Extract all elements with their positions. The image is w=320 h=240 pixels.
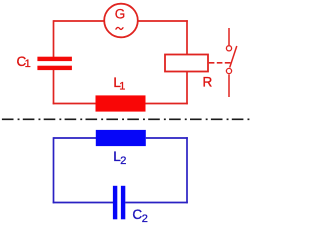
svg-text:2: 2 [142,213,148,225]
capacitor C2 left plate [113,186,117,220]
switch bottom contact circle [226,68,231,73]
wire bottom-left segment of primary loop [53,103,96,105]
switch top contact circle [226,46,231,51]
wire top-left segment of secondary loop [54,137,97,139]
wire left vertical lower (C1 to corner) [53,70,55,104]
dashed link R to switch [209,62,231,64]
switch blade [230,46,237,68]
wire top-right segment of secondary loop [146,137,188,139]
wire bottom-left segment of secondary loop [53,202,113,204]
svg-text:2: 2 [120,155,126,167]
svg-text:R: R [203,75,213,90]
wire right vertical lower (R to corner) [186,72,188,105]
svg-text:1: 1 [25,58,31,70]
capacitor C1 top plate [37,57,72,61]
wire left vertical of secondary loop [53,137,55,203]
wire left vertical upper (to C1) [53,20,55,57]
wire right vertical upper (to R) [186,20,188,54]
svg-text:1: 1 [119,81,125,93]
capacitor C2 right plate [121,186,125,220]
generator U1 circle [104,4,138,38]
svg-text:G: G [115,7,126,22]
wire top-right segment of primary loop [138,20,188,22]
inductor L1 [96,95,146,111]
inductor L2 [96,130,146,146]
axis dash-dot separator line [0,118,250,120]
generator sine symbol ~ [116,27,124,29]
switch bottom lead [228,74,230,97]
wire top-left segment of primary loop [54,20,105,22]
switch top lead [228,28,230,45]
wire bottom-right segment of primary loop [146,103,188,105]
capacitor C1 bottom plate [37,66,72,70]
wire bottom-right segment of secondary loop [125,202,188,204]
wire right vertical of secondary loop [186,137,188,203]
resistor R [165,55,208,72]
